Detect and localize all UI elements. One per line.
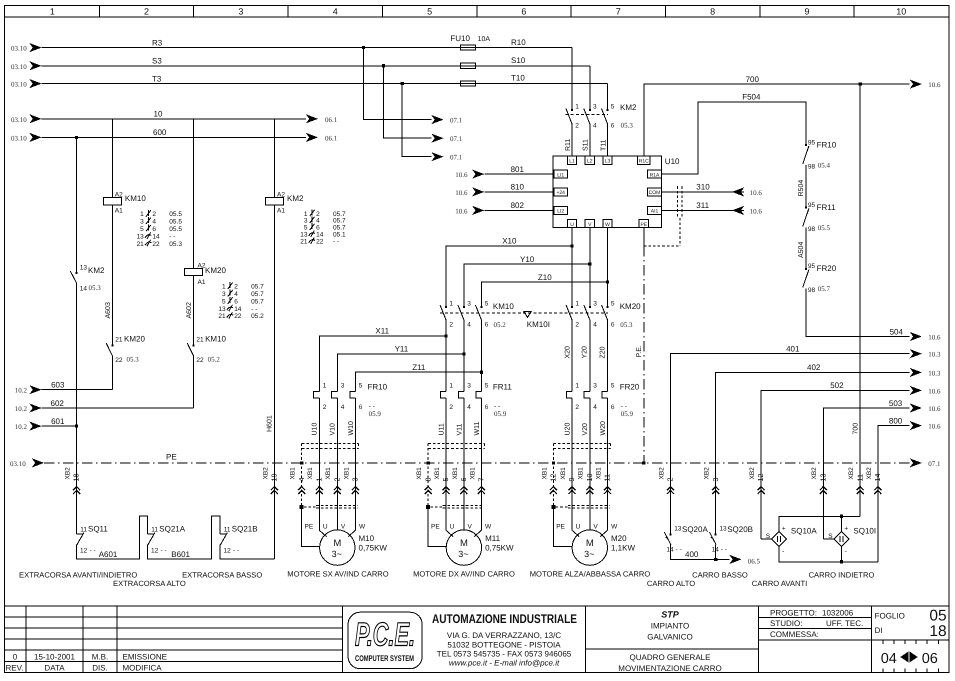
fuse FU10 pole T	[460, 81, 475, 86]
svg-text:KM20: KM20	[620, 302, 641, 311]
motor M10 3-phase	[305, 523, 388, 565]
svg-text:4: 4	[152, 219, 156, 226]
svg-text:FOGLIO: FOGLIO	[875, 611, 905, 620]
wire T10 drop to KM2 pole 5	[607, 84, 609, 111]
svg-text:10.6: 10.6	[928, 81, 941, 89]
wire A601	[77, 516, 148, 559]
wire KM2-14 down to 601	[76, 284, 78, 426]
svg-text:5: 5	[611, 300, 615, 307]
wire B601	[148, 516, 221, 559]
svg-text:KM20: KM20	[124, 335, 145, 344]
PE earth bus (dash-dot)	[10, 453, 941, 468]
svg-text:98: 98	[808, 226, 816, 233]
svg-text:3: 3	[711, 478, 720, 482]
wire 502	[761, 381, 941, 539]
svg-text:95: 95	[808, 263, 816, 270]
svg-text:- -: - -	[333, 238, 339, 245]
svg-text:801: 801	[511, 165, 525, 174]
svg-text:1: 1	[575, 383, 579, 390]
terminal XB1:11	[595, 467, 611, 494]
svg-text:A1: A1	[198, 279, 206, 286]
wire W10	[348, 398, 356, 530]
svg-text:COMMESSA:: COMMESSA:	[770, 630, 819, 639]
title block grid	[5, 606, 950, 673]
wire W20	[600, 398, 608, 530]
svg-text:KM2: KM2	[88, 266, 105, 275]
svg-text:22: 22	[316, 238, 324, 245]
svg-text:MOVIMENTAZIONE CARRO: MOVIMENTAZIONE CARRO	[618, 664, 721, 673]
svg-text:1: 1	[575, 104, 579, 111]
svg-text:2: 2	[575, 322, 579, 329]
svg-text:10.6: 10.6	[928, 334, 941, 342]
wire A602 (KM20 A1)	[186, 276, 193, 346]
svg-text:A602: A602	[186, 302, 193, 318]
svg-text:05.7: 05.7	[818, 285, 831, 293]
node 600 tap	[75, 136, 78, 139]
svg-text:PE: PE	[431, 523, 440, 530]
svg-text:5: 5	[611, 383, 615, 390]
svg-text:05.3: 05.3	[621, 121, 634, 129]
svg-text:19: 19	[270, 474, 279, 482]
svg-text:10.2: 10.2	[15, 387, 28, 395]
svg-text:4: 4	[593, 404, 597, 411]
fuse FU10 pole R	[450, 34, 490, 50]
svg-text:2: 2	[666, 478, 675, 482]
svg-text:SQ20A: SQ20A	[682, 525, 708, 534]
svg-text:L1: L1	[569, 159, 575, 165]
wire Z10	[481, 228, 609, 307]
svg-text:05.3: 05.3	[620, 321, 633, 329]
svg-text:14: 14	[234, 306, 242, 313]
svg-text:5: 5	[611, 104, 615, 111]
limit switch SQ20A 13-14	[664, 525, 708, 554]
svg-text:T10: T10	[511, 74, 525, 83]
contactor coil KM2	[265, 119, 304, 215]
wire 600 drop to KM2 13	[76, 137, 78, 273]
wire 401	[671, 345, 941, 534]
svg-text:05.9: 05.9	[494, 410, 507, 418]
svg-text:06: 06	[922, 651, 938, 667]
svg-text:www.pce.it - E-mail info@pce: www.pce.it - E-mail info@pce.it	[449, 659, 560, 668]
svg-text:L3: L3	[605, 159, 611, 165]
svg-text:12: 12	[224, 547, 232, 554]
svg-text:U10: U10	[312, 423, 319, 436]
svg-text:700: 700	[853, 423, 860, 435]
svg-text:6: 6	[485, 322, 489, 329]
svg-text:REV.: REV.	[6, 663, 24, 672]
svg-text:XB1: XB1	[541, 467, 548, 480]
limit switch SQ21A 11-12	[148, 524, 186, 554]
svg-text:6: 6	[152, 226, 156, 233]
svg-text:1: 1	[222, 284, 226, 291]
svg-text:1: 1	[449, 300, 453, 307]
svg-text:W11: W11	[474, 422, 481, 436]
auxiliary contact KM2 13-14	[70, 264, 105, 292]
wire R10 drop to KM2 pole 1	[571, 48, 573, 111]
svg-text:W: W	[485, 523, 492, 530]
svg-text:U: U	[570, 222, 574, 228]
svg-text:6: 6	[359, 404, 363, 411]
svg-text:CARRO ALTO: CARRO ALTO	[647, 579, 695, 588]
svg-text:M.B.: M.B.	[92, 652, 108, 661]
svg-text:05.7: 05.7	[251, 298, 264, 305]
wire 800	[878, 416, 941, 561]
wire 310 from COM	[661, 183, 762, 197]
svg-text:03.10: 03.10	[11, 81, 27, 89]
svg-text:07.1: 07.1	[450, 135, 463, 143]
svg-text:XB2: XB2	[811, 467, 818, 480]
svg-text:Y10: Y10	[520, 255, 535, 264]
cable shield marking (panel side)	[428, 443, 484, 448]
svg-text:XB2: XB2	[848, 467, 855, 480]
svg-text:SQ21A: SQ21A	[159, 524, 185, 533]
svg-text:CARRO BASSO: CARRO BASSO	[692, 570, 748, 579]
svg-text:U: U	[576, 523, 581, 530]
svg-text:FU10: FU10	[450, 34, 470, 43]
wire R11	[565, 125, 572, 157]
svg-text:13: 13	[137, 233, 145, 240]
svg-text:4: 4	[341, 404, 345, 411]
svg-text:- -: - -	[721, 546, 727, 553]
svg-text:3: 3	[593, 104, 597, 111]
svg-text:KM10I: KM10I	[527, 320, 550, 329]
svg-text:11: 11	[224, 526, 231, 533]
thermal relay FR10	[314, 382, 388, 418]
wire W11	[474, 398, 482, 530]
terminal XB2:11	[848, 467, 864, 494]
svg-text:310: 310	[696, 183, 710, 192]
svg-text:05.5: 05.5	[169, 219, 182, 226]
svg-text:21: 21	[115, 337, 123, 344]
svg-text:15-10-2001: 15-10-2001	[34, 652, 75, 661]
svg-text:11: 11	[151, 526, 158, 533]
svg-text:05.9: 05.9	[621, 410, 634, 418]
svg-text:10A: 10A	[478, 36, 491, 43]
svg-text:- -: - -	[369, 403, 375, 410]
svg-text:W: W	[611, 523, 618, 530]
svg-text:5: 5	[427, 7, 432, 17]
wire U10	[312, 398, 320, 530]
svg-text:KM10: KM10	[493, 302, 514, 311]
PE conductor wire (screen)	[551, 443, 572, 546]
svg-text:- -: - -	[161, 547, 167, 554]
svg-text:10.6: 10.6	[750, 207, 763, 215]
svg-text:4: 4	[467, 404, 471, 411]
svg-text:LI2: LI2	[557, 209, 564, 215]
svg-text:10.6: 10.6	[928, 405, 941, 413]
svg-text:KM10: KM10	[125, 194, 146, 203]
svg-text:10.6: 10.6	[455, 171, 468, 179]
wire 10	[11, 110, 338, 124]
terminal XB1:10	[578, 467, 594, 494]
svg-text:03.10: 03.10	[11, 45, 27, 53]
svg-text:- -: - -	[676, 546, 682, 553]
svg-text:1: 1	[575, 300, 579, 307]
fuse FU10 pole S	[460, 63, 475, 68]
svg-text:10.2: 10.2	[15, 405, 28, 413]
interlock symbol KM10I	[524, 311, 550, 329]
company block texts	[432, 612, 577, 668]
KM20 contact cross-reference table	[218, 282, 264, 320]
shielded pair marking at 310/311	[644, 186, 682, 246]
wire 600	[11, 128, 338, 142]
svg-text:14: 14	[152, 233, 160, 240]
contactor coil KM20	[184, 119, 226, 286]
terminal XB2:13	[811, 467, 827, 494]
svg-text:XB1: XB1	[434, 467, 441, 480]
svg-text:M: M	[460, 538, 468, 549]
svg-text:8: 8	[710, 7, 715, 17]
svg-text:AUTOMAZIONE INDUSTRIALE: AUTOMAZIONE INDUSTRIALE	[432, 612, 577, 626]
thermal relay contact FR11 95-98	[803, 202, 836, 233]
wire Y20	[582, 321, 590, 392]
svg-text:10.6: 10.6	[455, 189, 468, 197]
svg-text:W10: W10	[348, 421, 355, 436]
svg-text:V20: V20	[582, 423, 589, 436]
svg-text:A1: A1	[115, 207, 123, 214]
terminal XB2:2	[658, 467, 674, 494]
svg-text:GALVANICO: GALVANICO	[647, 632, 693, 641]
svg-text:XB2: XB2	[658, 467, 665, 480]
svg-text:3~: 3~	[584, 549, 594, 559]
svg-text:L2: L2	[587, 159, 593, 165]
svg-text:05.2: 05.2	[494, 321, 507, 329]
wire Z20	[599, 321, 607, 392]
svg-text:05.5: 05.5	[169, 211, 182, 218]
svg-text:IMPIANTO: IMPIANTO	[651, 621, 690, 630]
svg-text:-: -	[845, 548, 847, 555]
svg-text:XB1: XB1	[290, 467, 297, 480]
cable shield marking (motor side)	[304, 505, 358, 508]
svg-text:UFF. TEC.: UFF. TEC.	[826, 619, 863, 628]
terminal XB1:5	[434, 467, 450, 494]
wire Y11	[337, 321, 465, 392]
svg-text:PE: PE	[166, 453, 177, 462]
svg-text:600: 600	[153, 128, 167, 137]
svg-text:EXTRACORSA ALTO: EXTRACORSA ALTO	[113, 579, 186, 588]
wire labels R10 S10 T10	[511, 38, 526, 82]
svg-text:2: 2	[332, 478, 341, 482]
svg-text:R3: R3	[152, 38, 163, 47]
svg-text:03.10: 03.10	[11, 63, 27, 71]
svg-text:SQ20B: SQ20B	[727, 525, 753, 534]
contactor coil KM10	[103, 119, 146, 215]
wire 602	[15, 399, 194, 413]
svg-text:05.7: 05.7	[251, 284, 264, 291]
svg-text:U11: U11	[438, 423, 445, 435]
svg-text:U: U	[323, 523, 328, 530]
svg-text:PE: PE	[305, 523, 314, 530]
svg-text:12: 12	[151, 547, 159, 554]
node R3 tap to 07.1	[362, 46, 463, 125]
svg-text:H601: H601	[267, 415, 274, 432]
svg-text:DIS.: DIS.	[92, 663, 108, 672]
svg-text:311: 311	[696, 201, 709, 210]
wire 503	[823, 399, 941, 539]
svg-text:05.4: 05.4	[818, 162, 831, 170]
thermal relay contact FR20 95-98	[803, 263, 837, 294]
svg-text:12: 12	[80, 547, 88, 554]
terminal XB2:14	[866, 467, 882, 494]
terminal XB2:3	[704, 467, 720, 494]
proximity sensor SQ10A	[766, 526, 818, 555]
contactor KM10 main contacts	[440, 300, 514, 329]
svg-text:10.2: 10.2	[15, 423, 28, 431]
svg-text:603: 603	[51, 381, 65, 390]
svg-text:2: 2	[152, 211, 156, 218]
sheet navigation 04-06	[881, 640, 939, 673]
svg-text:T3: T3	[152, 74, 162, 83]
wire Y10	[464, 228, 592, 307]
svg-text:3: 3	[467, 383, 471, 390]
svg-text:-: -	[782, 548, 784, 555]
svg-text:1: 1	[140, 211, 144, 218]
svg-text:10: 10	[896, 7, 906, 17]
wire R504	[798, 165, 806, 208]
svg-text:12: 12	[549, 474, 558, 482]
wire 700 from R1C	[644, 75, 941, 156]
svg-text:A1: A1	[277, 207, 285, 214]
sheet number cell	[875, 607, 947, 640]
wire V10	[330, 398, 338, 530]
svg-text:2: 2	[575, 404, 579, 411]
svg-text:R504: R504	[798, 180, 805, 197]
svg-text:9: 9	[567, 478, 576, 482]
svg-text:SQ11: SQ11	[88, 524, 108, 533]
svg-text:13: 13	[719, 525, 727, 532]
svg-text:F504: F504	[742, 93, 761, 102]
svg-text:XB2: XB2	[262, 467, 269, 480]
svg-text:5: 5	[222, 298, 226, 305]
svg-text:13: 13	[674, 525, 682, 532]
svg-text:XB1: XB1	[578, 467, 585, 480]
svg-text:U: U	[450, 523, 455, 530]
svg-text:5: 5	[359, 383, 363, 390]
svg-text:SQ21B: SQ21B	[232, 524, 258, 533]
svg-text:4: 4	[467, 322, 471, 329]
svg-text:EMISSIONE: EMISSIONE	[123, 652, 167, 661]
svg-text:2: 2	[323, 404, 327, 411]
auxiliary contact KM10 21-22	[187, 335, 226, 364]
node S3 tap to 07.1	[382, 64, 463, 143]
svg-text:S10: S10	[511, 56, 526, 65]
svg-text:3: 3	[222, 291, 226, 298]
svg-text:1: 1	[50, 7, 55, 17]
svg-text:COMPUTER SYSTEM: COMPUTER SYSTEM	[355, 654, 414, 663]
svg-text:05.9: 05.9	[369, 410, 382, 418]
svg-text:V: V	[341, 523, 346, 530]
svg-text:M: M	[333, 538, 341, 549]
svg-text:Z20: Z20	[599, 346, 606, 358]
svg-text:3: 3	[467, 300, 471, 307]
wire U11	[438, 398, 446, 530]
svg-text:03.10: 03.10	[11, 134, 27, 142]
svg-text:A2: A2	[277, 191, 285, 198]
wire V11	[456, 398, 464, 530]
svg-text:MOTORE ALZA/ABBASSA CARRO: MOTORE ALZA/ABBASSA CARRO	[530, 570, 651, 579]
svg-text:COM: COM	[649, 190, 661, 196]
svg-text:X11: X11	[375, 327, 389, 336]
svg-text:6: 6	[234, 298, 238, 305]
column numbers 1-10	[50, 7, 907, 17]
contactor KM20 main contacts	[566, 300, 641, 329]
svg-text:2: 2	[449, 404, 453, 411]
svg-text:FR10: FR10	[817, 141, 837, 150]
cable shield marking (panel side)	[553, 443, 610, 448]
svg-text:DI: DI	[875, 626, 883, 635]
svg-text:3: 3	[341, 383, 345, 390]
svg-text:0,75KW: 0,75KW	[359, 544, 388, 553]
svg-text:401: 401	[786, 345, 800, 354]
proximity sensor SQ10I	[828, 526, 876, 555]
cable shield marking (motor side)	[556, 505, 610, 508]
svg-text:3: 3	[351, 478, 360, 482]
svg-text:802: 802	[511, 201, 525, 210]
svg-text:X10: X10	[502, 237, 517, 246]
wire T11	[600, 125, 607, 157]
project cell texts	[618, 608, 863, 672]
limit switch SQ11 11-12	[77, 524, 109, 554]
svg-text:- -: - -	[90, 547, 96, 554]
wire KM20-22 to 603	[111, 356, 113, 390]
svg-text:502: 502	[830, 381, 844, 390]
svg-text:FR11: FR11	[493, 382, 513, 391]
mechanical link dashed KM10-KM10I-KM20	[440, 312, 608, 314]
svg-text:21: 21	[300, 238, 308, 245]
svg-text:V11: V11	[456, 423, 463, 435]
svg-text:+: +	[782, 526, 786, 533]
svg-text:V: V	[468, 523, 473, 530]
wire 601	[15, 417, 78, 431]
wire 400	[671, 545, 761, 566]
svg-text:13: 13	[818, 474, 827, 482]
wire 810 to +24	[455, 183, 554, 197]
svg-text:05.3: 05.3	[89, 284, 102, 292]
svg-text:7: 7	[477, 478, 486, 482]
wire 603	[15, 381, 113, 395]
svg-text:10: 10	[154, 110, 163, 119]
PE conductor wire (screen)	[426, 443, 446, 546]
wire 402	[716, 363, 941, 534]
svg-text:6: 6	[485, 404, 489, 411]
svg-text:P.E.: P.E.	[636, 345, 643, 357]
svg-text:XB1: XB1	[560, 467, 567, 480]
svg-text:22: 22	[115, 357, 123, 364]
svg-text:05.5: 05.5	[818, 224, 831, 232]
soft starter U10	[553, 156, 680, 228]
svg-text:2: 2	[144, 7, 149, 17]
svg-text:05.2: 05.2	[208, 356, 221, 364]
svg-text:A2: A2	[115, 191, 123, 198]
svg-text:W: W	[359, 523, 366, 530]
terminal XB1:4	[290, 467, 306, 494]
wire 311 from AI1	[661, 201, 762, 215]
wire U20	[564, 398, 572, 530]
wire F504 from R1A	[661, 93, 806, 174]
svg-text:- -: - -	[251, 306, 257, 313]
wire S11	[583, 125, 590, 157]
thermal relay FR11	[440, 382, 512, 418]
svg-text:Z10: Z10	[538, 273, 552, 282]
svg-text:07.1: 07.1	[450, 117, 463, 125]
svg-text:P.C.E.: P.C.E.	[355, 616, 415, 653]
svg-text:9: 9	[804, 7, 809, 17]
svg-text:U20: U20	[564, 423, 571, 436]
svg-text:EXTRACORSA BASSO: EXTRACORSA BASSO	[182, 571, 262, 580]
svg-text:XB2: XB2	[65, 467, 72, 480]
wire SQ21B to H601	[220, 545, 274, 559]
terminal XB1:2	[325, 467, 341, 494]
